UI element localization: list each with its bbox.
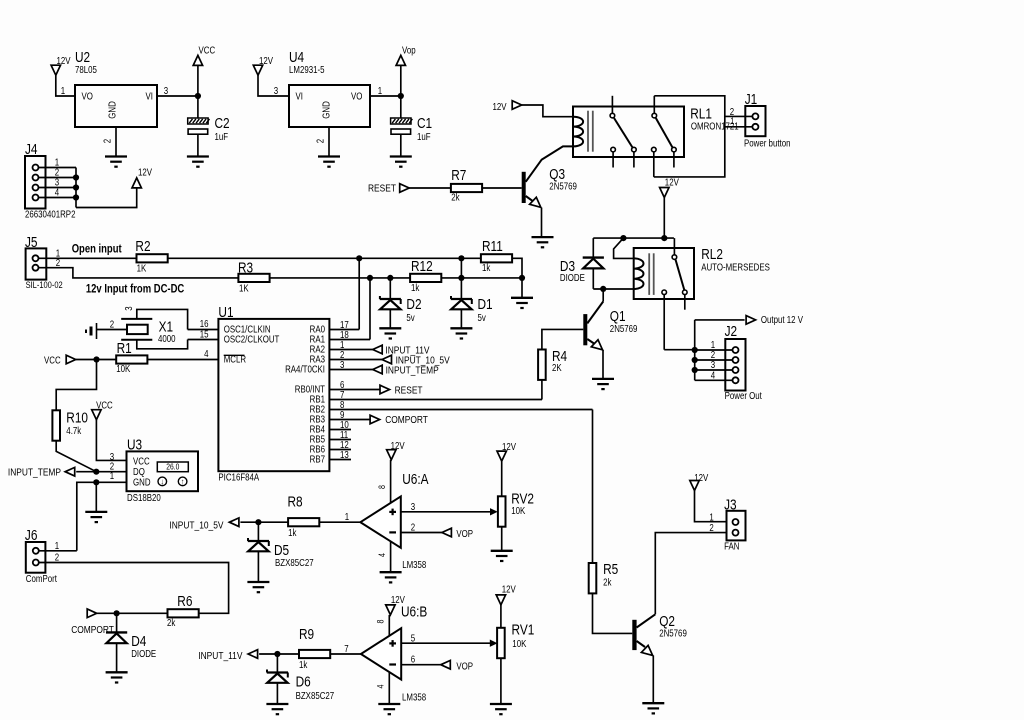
svg-text:INPUT_10_5V: INPUT_10_5V xyxy=(169,520,224,531)
svg-text:LM358: LM358 xyxy=(402,559,426,570)
svg-text:1k: 1k xyxy=(299,659,308,670)
svg-text:VI: VI xyxy=(296,91,303,102)
svg-text:U6:B: U6:B xyxy=(401,603,427,620)
svg-text:INPUT_TEMP: INPUT_TEMP xyxy=(386,365,439,376)
svg-text:4000: 4000 xyxy=(158,333,176,344)
svg-text:U4: U4 xyxy=(289,49,305,66)
svg-text:D2: D2 xyxy=(406,296,421,313)
svg-text:BZX85C27: BZX85C27 xyxy=(296,690,335,701)
svg-text:DIODE: DIODE xyxy=(560,272,585,283)
svg-text:10K: 10K xyxy=(512,638,526,649)
svg-text:GND: GND xyxy=(321,101,332,119)
svg-text:D4: D4 xyxy=(131,633,147,650)
svg-text:10K: 10K xyxy=(116,363,130,374)
svg-text:4: 4 xyxy=(204,348,208,359)
svg-text:R9: R9 xyxy=(299,626,314,643)
svg-text:LM2931-5: LM2931-5 xyxy=(289,64,325,75)
svg-text:4: 4 xyxy=(711,369,715,380)
svg-text:4: 4 xyxy=(377,553,387,557)
svg-text:COMPORT: COMPORT xyxy=(385,414,428,425)
svg-text:INPUT_11V: INPUT_11V xyxy=(198,650,243,661)
svg-text:R6: R6 xyxy=(177,593,192,610)
svg-text:1K: 1K xyxy=(137,263,147,274)
svg-text:78L05: 78L05 xyxy=(75,64,97,75)
svg-text:4.7k: 4.7k xyxy=(66,425,81,436)
svg-text:R1: R1 xyxy=(117,340,132,357)
svg-text:RL1: RL1 xyxy=(690,105,712,122)
svg-text:Output 12 V: Output 12 V xyxy=(761,314,803,325)
svg-text:12V: 12V xyxy=(138,166,152,177)
svg-text:R2: R2 xyxy=(135,238,150,255)
svg-text:6: 6 xyxy=(411,654,415,665)
svg-text:FAN: FAN xyxy=(724,541,739,552)
svg-text:1k: 1k xyxy=(288,527,297,538)
svg-text:26630401RP2: 26630401RP2 xyxy=(25,209,75,220)
svg-text:8: 8 xyxy=(376,619,386,623)
svg-text:VI: VI xyxy=(146,91,153,102)
svg-text:Power button: Power button xyxy=(744,138,791,149)
svg-text:2k: 2k xyxy=(451,192,460,203)
svg-text:DS18B20: DS18B20 xyxy=(127,492,161,503)
svg-text:1: 1 xyxy=(110,470,114,481)
svg-text:C2: C2 xyxy=(215,115,230,132)
svg-text:1: 1 xyxy=(730,116,734,126)
svg-text:2: 2 xyxy=(411,521,415,532)
svg-text:VOP: VOP xyxy=(456,661,473,672)
svg-text:DQ: DQ xyxy=(133,466,145,477)
svg-text:RV1: RV1 xyxy=(512,621,535,638)
svg-text:RB7: RB7 xyxy=(310,454,325,465)
svg-text:BZX85C27: BZX85C27 xyxy=(275,557,314,568)
svg-text:VO: VO xyxy=(82,91,93,102)
svg-text:1: 1 xyxy=(378,85,382,96)
svg-text:8: 8 xyxy=(377,485,387,489)
svg-text:R8: R8 xyxy=(288,493,303,510)
svg-text:1: 1 xyxy=(61,85,65,96)
svg-text:J1: J1 xyxy=(745,91,758,108)
svg-text:4: 4 xyxy=(55,187,59,198)
svg-text:1: 1 xyxy=(55,540,59,551)
svg-text:INPUT_TEMP: INPUT_TEMP xyxy=(8,467,61,478)
svg-text:3: 3 xyxy=(123,306,134,310)
svg-text:AUTO-MERSEDES: AUTO-MERSEDES xyxy=(701,261,770,272)
svg-text:RESET: RESET xyxy=(368,183,396,194)
svg-text:GND: GND xyxy=(133,477,151,488)
svg-text:R3: R3 xyxy=(238,259,253,276)
svg-text:R5: R5 xyxy=(603,560,618,577)
svg-text:SIL-100-02: SIL-100-02 xyxy=(26,279,63,290)
svg-text:ComPort: ComPort xyxy=(26,573,58,584)
svg-text:1uF: 1uF xyxy=(417,131,431,142)
svg-text:13: 13 xyxy=(340,449,349,460)
svg-text:26.0: 26.0 xyxy=(166,462,179,472)
svg-text:U1: U1 xyxy=(218,304,233,321)
svg-text:3: 3 xyxy=(411,501,415,512)
svg-text:3: 3 xyxy=(164,85,168,96)
svg-text:2: 2 xyxy=(102,139,113,143)
svg-text:D1: D1 xyxy=(478,296,493,313)
svg-text:U6:A: U6:A xyxy=(402,470,428,487)
svg-text:R12: R12 xyxy=(411,258,433,275)
svg-text:R7: R7 xyxy=(451,167,466,184)
svg-text:3: 3 xyxy=(340,359,344,370)
svg-text:12V: 12V xyxy=(665,177,679,188)
svg-text:5: 5 xyxy=(411,633,415,644)
svg-text:R11: R11 xyxy=(482,238,503,255)
svg-text:C1: C1 xyxy=(417,115,432,132)
svg-text:RA4/T0CKI: RA4/T0CKI xyxy=(285,364,325,375)
svg-text:1: 1 xyxy=(345,511,349,522)
svg-text:2: 2 xyxy=(110,318,114,329)
svg-text:4: 4 xyxy=(376,684,386,688)
svg-text:5v: 5v xyxy=(478,312,487,323)
svg-text:Vop: Vop xyxy=(402,45,416,56)
svg-text:5v: 5v xyxy=(406,312,415,323)
svg-text:2k: 2k xyxy=(167,617,176,628)
svg-text:7: 7 xyxy=(344,643,348,654)
svg-text:VO: VO xyxy=(351,91,362,102)
svg-text:12V: 12V xyxy=(493,101,507,112)
svg-text:VCC: VCC xyxy=(133,455,150,466)
svg-text:1K: 1K xyxy=(239,282,249,293)
svg-text:↓: ↓ xyxy=(161,477,164,487)
svg-text:1: 1 xyxy=(709,512,713,523)
svg-text:1k: 1k xyxy=(482,262,491,273)
svg-text:OSC2/CLKOUT: OSC2/CLKOUT xyxy=(224,334,280,345)
svg-text:2N5769: 2N5769 xyxy=(659,628,687,639)
svg-text:VOP: VOP xyxy=(456,528,473,539)
svg-text:U2: U2 xyxy=(75,49,90,66)
svg-text:12V: 12V xyxy=(502,584,516,595)
svg-text:J4: J4 xyxy=(25,141,38,158)
svg-text:R10: R10 xyxy=(66,409,88,426)
svg-text:2k: 2k xyxy=(603,577,612,588)
svg-text:2: 2 xyxy=(55,552,59,563)
svg-text:Power Out: Power Out xyxy=(725,390,763,401)
svg-text:J6: J6 xyxy=(25,527,38,544)
svg-text:LM358: LM358 xyxy=(402,691,426,702)
svg-text:Q1: Q1 xyxy=(610,308,626,325)
svg-text:2: 2 xyxy=(709,522,713,533)
svg-text:2N5769: 2N5769 xyxy=(549,181,577,192)
svg-text:↑: ↑ xyxy=(181,477,184,487)
svg-text:Open input: Open input xyxy=(72,243,122,256)
svg-text:2: 2 xyxy=(315,139,326,143)
svg-text:RESET: RESET xyxy=(395,385,423,396)
svg-text:RL2: RL2 xyxy=(701,246,723,263)
svg-text:J2: J2 xyxy=(725,323,738,340)
svg-text:DIODE: DIODE xyxy=(131,648,156,659)
svg-text:1uF: 1uF xyxy=(215,131,229,142)
svg-text:PIC16F84A: PIC16F84A xyxy=(218,472,259,483)
svg-text:D6: D6 xyxy=(296,673,311,690)
svg-text:10K: 10K xyxy=(511,505,525,516)
svg-text:2K: 2K xyxy=(552,362,562,373)
svg-text:VCC: VCC xyxy=(44,355,61,366)
svg-text:VCC: VCC xyxy=(199,45,216,56)
svg-text:2N5769: 2N5769 xyxy=(610,323,638,334)
svg-text:1k: 1k xyxy=(411,282,420,293)
svg-text:12v Input from DC-DC: 12v Input from DC-DC xyxy=(86,283,185,296)
svg-text:3: 3 xyxy=(274,85,278,96)
svg-text:GND: GND xyxy=(107,101,118,119)
svg-text:U3: U3 xyxy=(127,436,142,453)
svg-text:15: 15 xyxy=(200,328,209,339)
